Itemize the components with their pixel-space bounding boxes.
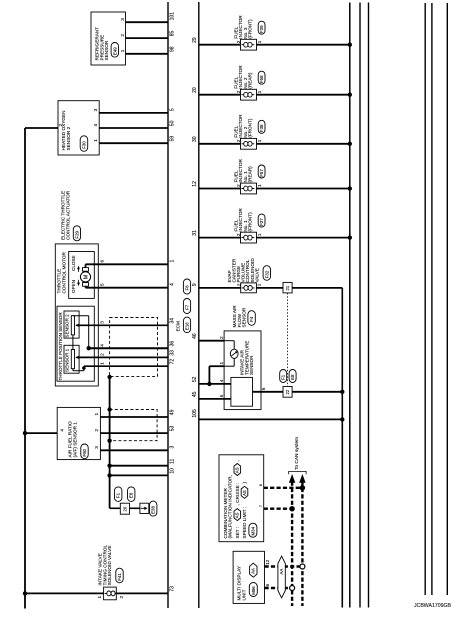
wire bus <box>446 3 448 595</box>
svg-text:1: 1 <box>257 139 262 142</box>
maf element box <box>231 377 253 406</box>
svg-text:AS: AS <box>242 490 247 496</box>
wire <box>257 94 350 96</box>
wire <box>199 383 231 385</box>
pin 5 <box>219 394 224 397</box>
wire <box>257 188 350 190</box>
bracket to CAN system <box>289 437 306 474</box>
wire <box>224 341 234 350</box>
svg-text:22: 22 <box>285 389 290 394</box>
wire <box>84 365 168 367</box>
junction <box>348 93 352 97</box>
pin 2 <box>219 336 224 339</box>
svg-text:1: 1 <box>257 283 262 286</box>
svg-text:M: M <box>83 274 89 279</box>
svg-text:(FRONT): (FRONT) <box>248 212 253 232</box>
shield <box>110 410 158 441</box>
svg-text:31: 31 <box>192 230 198 236</box>
svg-text:(FRONT): (FRONT) <box>248 19 253 39</box>
wire <box>73 316 89 349</box>
svg-text:4: 4 <box>219 379 224 382</box>
junction <box>289 506 294 511</box>
pin 3 <box>99 321 104 324</box>
electric throttle control actuator F29 label <box>61 190 81 241</box>
wire <box>99 142 168 144</box>
throttle control motor box <box>57 251 95 298</box>
wire bus <box>359 3 361 608</box>
refrigerant pressure sensor E49 <box>91 12 126 65</box>
svg-text:(REAR): (REAR) <box>248 166 253 183</box>
sensor 1 box <box>64 345 79 373</box>
junction <box>207 382 211 386</box>
junction <box>107 407 111 411</box>
intake valve timing control solenoid valve F41 <box>98 544 124 585</box>
pin 1 <box>170 260 176 263</box>
svg-text:6: 6 <box>100 260 105 263</box>
wire <box>126 21 169 23</box>
wire <box>100 416 168 418</box>
pin 9 <box>192 283 198 286</box>
wire <box>199 94 241 96</box>
connector E8 <box>289 370 296 383</box>
op ECM E16 <box>176 317 191 333</box>
pin 46 <box>192 333 198 339</box>
shield <box>110 318 158 377</box>
svg-text:5: 5 <box>219 394 224 397</box>
wire <box>199 398 231 400</box>
svg-text:(REAR): (REAR) <box>248 72 253 89</box>
pin 52 <box>192 376 198 382</box>
wire CAN L <box>291 482 293 607</box>
junction <box>87 346 91 350</box>
pin 98 <box>170 46 176 52</box>
pin 85 <box>170 31 176 37</box>
junction <box>23 431 27 435</box>
fuel injector No. 3 (FRONT) F39 <box>233 15 265 50</box>
node open circle <box>290 586 295 591</box>
pin 5 <box>170 108 176 111</box>
sensor 2 box <box>64 311 79 338</box>
pin 53 <box>170 426 176 432</box>
svg-text:34: 34 <box>170 318 176 324</box>
svg-text:12: 12 <box>265 559 270 565</box>
svg-text:59: 59 <box>170 136 176 142</box>
svg-text:VALVE: VALVE <box>254 268 259 282</box>
wire <box>110 474 168 476</box>
junction <box>340 390 344 394</box>
pin 33 <box>170 350 176 356</box>
EVAP canister purge volume control solenoid valve F32 <box>227 258 271 293</box>
svg-text:36: 36 <box>170 341 176 347</box>
connector F7 <box>183 299 190 314</box>
svg-text:45: 45 <box>192 391 198 397</box>
svg-text:53: 53 <box>170 426 176 432</box>
junction <box>348 186 352 190</box>
motor M <box>80 268 90 287</box>
pin 6 <box>100 260 105 263</box>
wire <box>199 44 241 46</box>
node open circle <box>300 564 305 569</box>
svg-text:3: 3 <box>120 18 125 21</box>
svg-text:1: 1 <box>257 90 262 93</box>
wire <box>89 347 168 349</box>
pin 36 <box>170 341 176 347</box>
pin 105 <box>192 409 198 418</box>
wire <box>126 37 169 39</box>
connector F6 <box>183 279 190 294</box>
wire <box>86 264 169 267</box>
pin 1 <box>97 596 102 599</box>
wire <box>110 507 121 509</box>
svg-text:F4: F4 <box>249 316 254 322</box>
wire <box>209 366 224 384</box>
svg-text:26: 26 <box>122 506 127 511</box>
svg-text:F57: F57 <box>259 169 264 177</box>
svg-text:(MALFUNCTION INDICATOR,: (MALFUNCTION INDICATOR, <box>228 475 233 538</box>
svg-text:F1: F1 <box>116 492 121 498</box>
pin 6 <box>261 387 266 390</box>
svg-text:F39: F39 <box>259 25 264 33</box>
air fuel ratio (A/F) sensor 1 F50 <box>57 407 100 459</box>
combination meter M34 <box>219 455 264 542</box>
svg-text:E38: E38 <box>151 506 156 514</box>
wire <box>257 44 350 46</box>
svg-text:To CAN system: To CAN system <box>294 437 300 470</box>
svg-text:2: 2 <box>236 139 241 142</box>
wire <box>199 418 342 420</box>
wire bus <box>431 3 433 595</box>
svg-text:1: 1 <box>93 139 98 142</box>
pin 59 <box>170 136 176 142</box>
svg-text:AA: AA <box>251 568 256 574</box>
svg-text:29: 29 <box>192 37 198 43</box>
svg-text:73: 73 <box>170 586 176 592</box>
junction <box>107 464 111 468</box>
svg-text:21: 21 <box>285 285 290 290</box>
junction <box>107 439 111 443</box>
svg-text:F41: F41 <box>117 573 122 581</box>
wire bus <box>424 3 426 595</box>
connector F1 <box>280 370 287 383</box>
svg-text:F6: F6 <box>185 285 190 291</box>
svg-text:F32: F32 <box>264 270 269 278</box>
svg-text:2: 2 <box>219 336 224 339</box>
mass air flow sensor box <box>224 331 261 410</box>
connector F1 <box>115 487 122 502</box>
svg-text:2: 2 <box>119 596 124 599</box>
svg-text:SET :: SET : <box>235 527 240 539</box>
wire wiper sensor 2 <box>75 324 168 327</box>
svg-text:101: 101 <box>170 12 176 21</box>
svg-text:E49: E49 <box>112 47 117 55</box>
ground E38 <box>140 501 157 516</box>
wire <box>116 592 168 594</box>
svg-text:F38: F38 <box>259 124 264 132</box>
svg-text:3: 3 <box>94 446 99 449</box>
pin 45 <box>192 391 198 397</box>
wire bus <box>368 3 370 608</box>
wire <box>86 286 169 288</box>
svg-text:4: 4 <box>99 344 104 347</box>
svg-text:4: 4 <box>93 124 98 127</box>
wire <box>265 587 293 589</box>
wire CAN to meter <box>264 508 292 510</box>
wire CAN to meter <box>264 487 303 489</box>
svg-text:(FRONT): (FRONT) <box>248 118 253 138</box>
wire <box>199 188 241 190</box>
junction <box>107 375 111 379</box>
svg-text:98: 98 <box>170 46 176 52</box>
wire <box>72 335 74 350</box>
thermistor <box>230 349 238 358</box>
svg-text:F37: F37 <box>259 218 264 226</box>
wire <box>110 465 168 467</box>
svg-text:2: 2 <box>94 429 99 432</box>
svg-text:2: 2 <box>120 34 125 37</box>
svg-text:M34: M34 <box>250 526 255 535</box>
wire <box>199 340 224 342</box>
pin 101 <box>170 12 176 21</box>
wire <box>224 358 234 366</box>
svg-text:4: 4 <box>60 429 65 432</box>
svg-text:AS: AS <box>235 467 240 473</box>
pin 50 <box>170 120 176 126</box>
arrow close <box>77 266 80 272</box>
svg-text:3: 3 <box>170 446 176 449</box>
svg-text:1: 1 <box>257 40 262 43</box>
junction <box>348 43 352 47</box>
svg-text:1: 1 <box>94 413 99 416</box>
diagram id JCBWA1709GB <box>414 603 452 609</box>
pin 5 <box>100 283 105 286</box>
svg-text:AA: AA <box>279 569 284 575</box>
resistor sensor 1 <box>71 350 74 369</box>
svg-text:1: 1 <box>219 362 224 365</box>
svg-text:6: 6 <box>261 387 266 390</box>
svg-text:6: 6 <box>259 484 263 486</box>
svg-text:AS: AS <box>235 512 240 518</box>
pin 4 <box>170 283 176 286</box>
pin 30 <box>192 136 198 142</box>
wire <box>287 293 289 387</box>
pin 3 <box>170 446 176 449</box>
fuel injector No. 1 (FRONT) F37 <box>233 208 265 243</box>
svg-text:2: 2 <box>58 124 63 127</box>
svg-text:2: 2 <box>236 283 241 286</box>
svg-text:20: 20 <box>192 87 198 93</box>
svg-text:(A/F) SENSOR 1: (A/F) SENSOR 1 <box>72 422 77 458</box>
svg-text:10: 10 <box>170 468 176 474</box>
wire ECM connector line E16 (left) <box>167 2 169 608</box>
junction <box>340 417 344 421</box>
wire <box>100 449 168 451</box>
connector E8 <box>128 487 135 502</box>
junction <box>300 485 305 490</box>
svg-text:46: 46 <box>192 333 198 339</box>
svg-text:F50: F50 <box>82 448 87 456</box>
fuel injector No. 1 (REAR) F57 <box>233 159 265 194</box>
wire <box>199 237 241 239</box>
wire <box>126 53 169 55</box>
svg-text:1: 1 <box>257 184 262 187</box>
wire <box>25 592 104 594</box>
pin 11 <box>170 458 176 463</box>
svg-text:SENSOR 1: SENSOR 1 <box>64 348 69 372</box>
splice 21 <box>283 282 292 293</box>
svg-text:ECM: ECM <box>176 321 181 332</box>
splice 26 <box>120 503 129 514</box>
fuel injector No. 2 (FRONT) F38 <box>233 114 265 149</box>
solenoid valve symbol <box>104 587 118 600</box>
wire left ground bus <box>24 128 26 609</box>
svg-text:F30: F30 <box>82 141 87 149</box>
pin 4 <box>99 344 104 347</box>
junction <box>23 591 27 595</box>
heated oxygen sensor 2 F30 <box>58 101 99 155</box>
svg-text:, CRUISE :: , CRUISE : <box>235 483 240 506</box>
svg-text:F29: F29 <box>74 230 79 238</box>
svg-text:SENSOR: SENSOR <box>104 40 109 60</box>
wire <box>99 112 168 114</box>
svg-text:OPEN: OPEN <box>71 280 76 293</box>
arrow open <box>77 280 80 286</box>
wire <box>199 287 241 289</box>
svg-text:SENSOR: SENSOR <box>249 355 254 375</box>
svg-text:85: 85 <box>170 31 176 37</box>
svg-text:2: 2 <box>236 40 241 43</box>
svg-text:E8: E8 <box>129 492 134 498</box>
svg-text:12: 12 <box>192 181 198 187</box>
pin 49 <box>170 409 176 415</box>
wire <box>99 127 168 129</box>
svg-text:F1: F1 <box>281 374 286 380</box>
wire <box>257 143 350 145</box>
svg-text:SENSOR 2: SENSOR 2 <box>64 314 69 338</box>
svg-text:3: 3 <box>99 321 104 324</box>
arrow to CAN <box>289 474 295 483</box>
svg-text:THROTTLE POSITION SENSOR: THROTTLE POSITION SENSOR <box>58 312 63 381</box>
pin 12 <box>192 181 198 187</box>
svg-text:52: 52 <box>192 376 198 382</box>
pin 1 <box>99 362 104 365</box>
wire <box>25 432 57 434</box>
svg-text:JCBWA1709GB: JCBWA1709GB <box>414 603 452 609</box>
svg-text:2: 2 <box>99 353 104 356</box>
svg-text:,: , <box>235 460 240 461</box>
wire wiper sensor 1 <box>75 356 168 359</box>
svg-text:30: 30 <box>192 136 198 142</box>
wire <box>100 432 168 434</box>
wire <box>130 507 140 509</box>
svg-text:SOLENOID VALVE: SOLENOID VALVE <box>107 546 112 586</box>
joint connector AA <box>278 556 285 598</box>
pin 10 <box>170 468 176 474</box>
splice 22 <box>283 387 292 398</box>
pin 73 <box>170 586 176 592</box>
pin 31 <box>192 230 198 236</box>
svg-text:7: 7 <box>259 505 263 507</box>
svg-text:3: 3 <box>93 108 98 111</box>
pin 72 <box>170 359 176 365</box>
svg-text:1: 1 <box>120 49 125 52</box>
resistor sensor 2 <box>71 316 74 335</box>
svg-text:5: 5 <box>170 108 176 111</box>
wire ECM connector line F6/F7 (right) <box>198 2 200 608</box>
svg-text:2: 2 <box>236 233 241 236</box>
svg-text:UNIT: UNIT <box>241 589 246 600</box>
svg-text:CLOSE: CLOSE <box>71 255 76 271</box>
svg-text:1: 1 <box>97 596 102 599</box>
svg-text:105: 105 <box>192 409 198 418</box>
wire CAN H <box>301 482 303 607</box>
svg-text:2: 2 <box>236 90 241 93</box>
svg-text:SPEED LIMIT :: SPEED LIMIT : <box>242 507 247 539</box>
pin 20 <box>192 87 198 93</box>
mass air flow sensor F4 label <box>232 305 255 328</box>
svg-text:2: 2 <box>236 184 241 187</box>
wire <box>253 391 343 393</box>
wire <box>265 565 303 567</box>
junction <box>107 473 111 477</box>
wire <box>25 127 58 129</box>
svg-text:F7: F7 <box>185 304 190 310</box>
junction <box>348 235 352 239</box>
svg-text:1: 1 <box>170 260 176 263</box>
svg-text:1: 1 <box>99 362 104 365</box>
svg-text:49: 49 <box>170 409 176 415</box>
svg-text:E8: E8 <box>290 374 295 380</box>
pin 29 <box>192 37 198 43</box>
wire shield drain <box>109 376 111 508</box>
wire <box>257 237 350 239</box>
svg-text:33: 33 <box>170 350 176 356</box>
svg-text:CONTROL MOTOR: CONTROL MOTOR <box>61 251 66 293</box>
junction <box>82 366 86 370</box>
svg-text:11: 11 <box>170 458 176 463</box>
svg-text:6: 6 <box>265 584 270 587</box>
svg-text:9: 9 <box>192 283 198 286</box>
wire <box>256 288 342 608</box>
svg-text:50: 50 <box>170 120 176 126</box>
svg-text:F58: F58 <box>259 75 264 83</box>
wire injector power bus <box>349 3 351 608</box>
svg-text:E16: E16 <box>185 322 190 330</box>
svg-text:4: 4 <box>170 283 176 286</box>
svg-text:SENSOR 2: SENSOR 2 <box>66 126 71 150</box>
pin 4 <box>219 379 224 382</box>
fuel injector No. 2 (REAR) F58 <box>233 65 265 100</box>
svg-text:CONTROL ACTUATOR: CONTROL ACTUATOR <box>65 190 70 240</box>
wire <box>73 366 84 371</box>
throttle position sensor box <box>57 306 94 381</box>
pin 2 <box>119 596 124 599</box>
pin 34 <box>170 318 176 324</box>
pin 1 <box>219 362 224 365</box>
svg-text:1: 1 <box>257 233 262 236</box>
pin 2 <box>99 353 104 356</box>
junction <box>348 142 352 146</box>
multi display unit M96 <box>233 551 270 603</box>
svg-text:5: 5 <box>100 283 105 286</box>
arrow to CAN <box>299 474 305 483</box>
wire <box>199 143 241 145</box>
electric throttle control actuator box <box>55 244 98 386</box>
svg-text:M96: M96 <box>251 586 256 595</box>
svg-text:72: 72 <box>170 359 176 365</box>
svg-text:SENSOR: SENSOR <box>242 307 247 327</box>
